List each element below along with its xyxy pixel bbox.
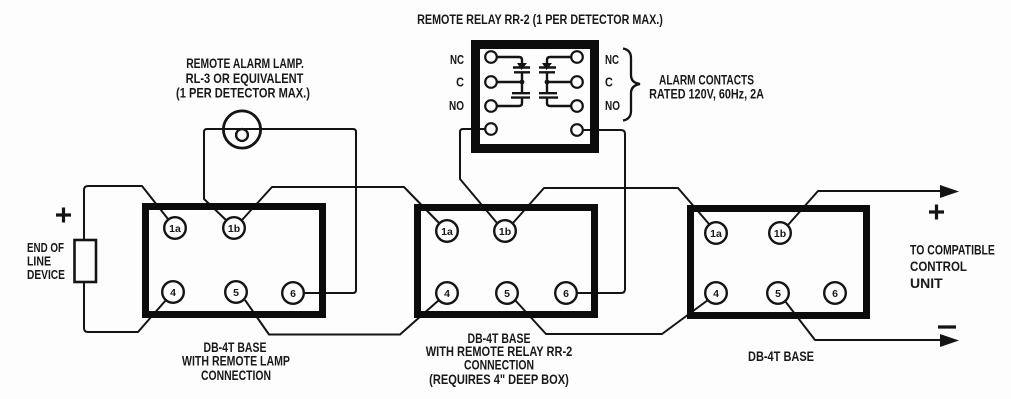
svg-text:1a: 1a xyxy=(441,226,453,238)
svg-text:CONTROL: CONTROL xyxy=(910,258,967,274)
svg-text:(REQUIRES 4" DEEP BOX): (REQUIRES 4" DEEP BOX) xyxy=(429,372,569,388)
svg-text:REMOTE ALARM LAMP.: REMOTE ALARM LAMP. xyxy=(186,55,304,71)
svg-text:NC: NC xyxy=(450,54,464,68)
svg-text:WITH REMOTE LAMP: WITH REMOTE LAMP xyxy=(182,353,290,369)
svg-text:5: 5 xyxy=(233,287,239,299)
svg-text:6: 6 xyxy=(563,288,569,300)
svg-text:C: C xyxy=(456,75,464,90)
svg-text:5: 5 xyxy=(775,288,781,300)
svg-text:5: 5 xyxy=(504,288,510,300)
svg-text:4: 4 xyxy=(444,288,450,300)
svg-text:TO COMPATIBLE: TO COMPATIBLE xyxy=(910,242,995,258)
svg-text:C: C xyxy=(605,75,613,90)
svg-text:DB-4T BASE: DB-4T BASE xyxy=(748,349,814,365)
svg-text:CONNECTION: CONNECTION xyxy=(464,357,534,373)
svg-text:1a: 1a xyxy=(710,228,722,240)
svg-text:REMOTE RELAY RR-2 (1 PER DETEC: REMOTE RELAY RR-2 (1 PER DETECTOR MAX.) xyxy=(417,12,663,28)
svg-text:DEVICE: DEVICE xyxy=(27,268,65,282)
svg-text:1a: 1a xyxy=(169,223,181,235)
svg-text:6: 6 xyxy=(290,288,296,300)
svg-text:1b: 1b xyxy=(774,228,786,240)
svg-text:(1 PER DETECTOR MAX.): (1 PER DETECTOR MAX.) xyxy=(176,85,310,101)
svg-text:1b: 1b xyxy=(499,226,511,238)
svg-text:4: 4 xyxy=(170,287,176,299)
svg-text:6: 6 xyxy=(832,288,838,300)
svg-text:4: 4 xyxy=(713,288,719,300)
svg-text:NO: NO xyxy=(449,100,464,113)
svg-text:RATED 120V, 60Hz, 2A: RATED 120V, 60Hz, 2A xyxy=(649,86,764,102)
svg-text:CONNECTION: CONNECTION xyxy=(201,368,271,384)
svg-text:LINE: LINE xyxy=(27,253,51,268)
svg-text:1b: 1b xyxy=(228,223,240,235)
svg-text:RL-3 OR EQUIVALENT: RL-3 OR EQUIVALENT xyxy=(186,71,304,87)
svg-text:NC: NC xyxy=(605,54,619,68)
svg-text:UNIT: UNIT xyxy=(910,275,943,291)
svg-text:NO: NO xyxy=(605,100,620,113)
